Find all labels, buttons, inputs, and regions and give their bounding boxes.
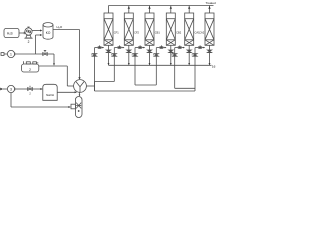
return header B bbox=[95, 90, 196, 92]
wire drum D-2 to mixer bbox=[39, 66, 74, 86]
valve on switching drop at x=135.0 bbox=[132, 54, 137, 57]
valve on CA2 bottom drop bbox=[207, 50, 211, 53]
valve V-1 bbox=[43, 50, 47, 55]
jumper U2 bbox=[135, 84, 156, 86]
wire riser column CB1 to header bbox=[148, 6, 150, 14]
wire column CA2 bottom drop bbox=[209, 45, 211, 65]
valve and side feed line into column CB2 bbox=[156, 45, 166, 48]
wire column CB1 bottom drop bbox=[149, 45, 151, 65]
wire column CA1 bottom drop bbox=[188, 45, 190, 65]
wire riser column CF2 to header bbox=[128, 6, 130, 14]
svg-text:CA2: CA2 bbox=[199, 30, 205, 34]
drum D-2 bbox=[22, 64, 39, 72]
pump P-3 bbox=[7, 85, 14, 92]
wire riser column CA1 to header bbox=[188, 6, 190, 14]
wire tank to filter inlet with arrow bbox=[57, 91, 77, 93]
adsorber column CF2 bbox=[124, 13, 139, 45]
valve and side feed line into column CA1 bbox=[175, 45, 185, 48]
wire column CF1 bottom drop bbox=[108, 45, 110, 65]
feed manifold bbox=[109, 64, 212, 66]
svg-text:CB2: CB2 bbox=[176, 30, 182, 34]
KO drum D-1 bbox=[43, 23, 53, 40]
adsorber column CA1 bbox=[185, 13, 200, 45]
wire valve V-1 to mix line with arrow bbox=[47, 54, 55, 66]
compressor K-2 bbox=[24, 27, 32, 44]
valve on switching drop at x=156.3 bbox=[153, 54, 158, 57]
pump P-1 bbox=[7, 50, 14, 57]
svg-text:1: 1 bbox=[10, 52, 12, 56]
adsorber column CF1 bbox=[104, 13, 119, 45]
valve V-3 bbox=[28, 86, 33, 96]
wire riser column CB2 to header bbox=[170, 6, 172, 14]
drum D-2 fittings bbox=[24, 61, 39, 64]
pump P-3 suction fitting bbox=[0, 88, 7, 91]
wire switching drop at x=156.3 bbox=[155, 48, 157, 85]
wire switching drop at x=174.7 bbox=[174, 48, 176, 89]
valve and side feed line into column CF2 bbox=[114, 45, 124, 48]
feed box H2S bbox=[4, 29, 19, 38]
jumper U1 bbox=[95, 81, 115, 83]
wire column CF2 bottom drop bbox=[128, 45, 130, 65]
adsorber column CB2 bbox=[166, 13, 181, 45]
svg-text:NaOH: NaOH bbox=[46, 93, 54, 97]
wire column CB2 bottom drop bbox=[170, 45, 172, 65]
wire riser column CF1 to header bbox=[108, 6, 110, 14]
svg-text:Treated: Treated bbox=[206, 1, 217, 5]
wire riser column CA2 to header bbox=[208, 6, 210, 14]
svg-text:CF2: CF2 bbox=[134, 30, 139, 34]
valve on CB2 bottom drop bbox=[169, 50, 173, 53]
svg-text:CB1: CB1 bbox=[155, 30, 161, 34]
wire pump P-3 to valve bbox=[15, 88, 28, 90]
wire mixer right to node bbox=[86, 82, 94, 92]
tank NaOH bbox=[43, 84, 57, 100]
wire riser from pump line up to drum with arrow bbox=[36, 34, 43, 54]
valve and side feed line into column CF1 bbox=[95, 45, 105, 48]
svg-text:KO: KO bbox=[46, 31, 51, 35]
svg-text:3: 3 bbox=[10, 87, 12, 91]
wire switching drop at x=94.5 bbox=[94, 48, 96, 91]
svg-text:2: 2 bbox=[29, 93, 31, 96]
svg-text:Le: Le bbox=[212, 64, 216, 68]
wire pump P-3 recirculation to filter with arrow bbox=[11, 93, 71, 108]
inline filter F-1 bbox=[71, 97, 82, 118]
valve on CB1 bottom drop bbox=[147, 50, 151, 53]
valve on switching drop at x=94.5 bbox=[91, 54, 96, 57]
wire switching drop at x=135.0 bbox=[134, 48, 136, 85]
svg-text:2: 2 bbox=[29, 68, 31, 72]
valve and side feed line into column CA2 bbox=[195, 45, 205, 48]
valve and side feed line into column CB1 bbox=[135, 45, 145, 48]
wire compressor to drum with arrow bbox=[32, 30, 42, 32]
wire mixer outlet to filter with arrow bbox=[79, 92, 81, 96]
valve on switching drop at x=114.3 bbox=[111, 54, 116, 57]
valve on switching drop at x=174.7 bbox=[171, 54, 176, 57]
pump P-1 suction fitting bbox=[1, 53, 7, 56]
valve on CA1 bottom drop bbox=[187, 50, 191, 53]
svg-text:H2S: H2S bbox=[7, 31, 13, 36]
jumper U3 bbox=[175, 87, 195, 89]
valve on CF2 bottom drop bbox=[127, 50, 131, 53]
wire KO drum overhead to mixer bbox=[53, 30, 81, 80]
svg-text:2: 2 bbox=[28, 40, 30, 44]
svg-text:CF1: CF1 bbox=[114, 30, 119, 34]
treated gas header bbox=[109, 5, 214, 7]
mixer M-1 bbox=[74, 80, 87, 93]
wire switching drop at x=114.3 bbox=[113, 48, 115, 82]
wire valve V-3 to tank with arrow bbox=[32, 88, 43, 90]
svg-text:H2O: H2O bbox=[57, 25, 63, 30]
valve on CF1 bottom drop bbox=[106, 50, 110, 53]
valve on switching drop at x=195.0 bbox=[192, 54, 197, 57]
adsorber column CB1 bbox=[145, 13, 160, 45]
adsorber column CA2 bbox=[199, 13, 214, 45]
wire pump P-1 discharge bbox=[15, 53, 43, 55]
wire feed box to compressor bbox=[19, 32, 25, 34]
wire switching drop at x=195.0 bbox=[194, 48, 196, 91]
